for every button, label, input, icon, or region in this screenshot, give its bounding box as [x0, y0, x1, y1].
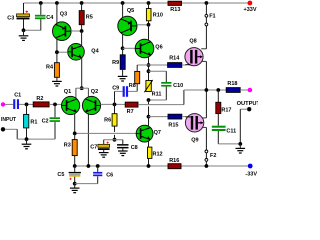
node output / R17	[216, 88, 220, 92]
node C3-C4 ground junction	[22, 28, 26, 32]
wire Q2 emitter down to bus	[87, 113, 89, 166]
transistor Q2 (NPN mirrored)	[82, 89, 100, 115]
wire +33V top supply rail (right section)	[182, 2, 248, 4]
transistor Q1 (NPN)	[62, 89, 80, 115]
wire +33V top supply rail (left section)	[24, 2, 169, 4]
node Q4 base / R4	[55, 50, 59, 54]
wire rail to Q5 emitter	[122, 3, 124, 18]
wire R18 to output terminal	[240, 89, 248, 91]
terminal -33V (blue)	[248, 164, 253, 169]
svg-text:C5: C5	[57, 172, 64, 178]
resistor R17	[216, 90, 232, 126]
resistor R8	[129, 71, 140, 91]
wire node to R8 top	[137, 65, 148, 71]
capacitor C6	[93, 166, 113, 178]
resistor R12	[148, 147, 163, 166]
wire Q9 source step to F2	[202, 127, 207, 149]
transistor Q4 (NPN)	[68, 44, 100, 61]
svg-text:C8: C8	[131, 145, 138, 151]
node C1/R1/R2	[25, 103, 29, 107]
terminal input ground (black)	[1, 127, 5, 131]
svg-text:R6: R6	[104, 118, 111, 124]
svg-text:Q4: Q4	[91, 48, 99, 54]
svg-text:Q5: Q5	[127, 8, 134, 14]
capacitor C4	[35, 3, 54, 30]
wire down to R15 node (gap at feedback crossing)	[148, 100, 150, 117]
wire C9 left to Q2 base node	[115, 91, 123, 104]
node bus C6	[96, 164, 100, 168]
svg-text:F2: F2	[210, 153, 216, 159]
label -33V	[245, 171, 257, 177]
svg-text:R9: R9	[112, 60, 119, 66]
ground below R4	[52, 81, 62, 86]
wire input to C1	[5, 103, 13, 105]
node Q6 emitter / R8 / R14	[147, 63, 151, 67]
svg-text:Q8: Q8	[189, 38, 196, 44]
capacitor C11	[212, 126, 236, 135]
wire R14 to Q8 gate	[182, 64, 186, 66]
wire C10 bottom to R11 bottom node	[149, 87, 167, 100]
capacitor C3 electrolytic	[7, 3, 29, 30]
terminal INPUT (magenta)	[1, 102, 5, 106]
wire Q4 collector up	[81, 31, 83, 46]
node R11 bottom / C10	[147, 98, 151, 102]
svg-text:Q9: Q9	[191, 137, 198, 143]
resistor R7 (feedback)	[125, 102, 138, 115]
svg-text:R10: R10	[153, 12, 163, 18]
node rail junction Q3 emitter	[55, 1, 59, 5]
svg-text:INPUT: INPUT	[1, 117, 16, 123]
node R6 bottom / C7 / C8	[113, 138, 117, 142]
svg-text:R12: R12	[153, 152, 163, 158]
svg-text:C1: C1	[14, 92, 21, 98]
svg-text:R15: R15	[168, 122, 178, 128]
capacitor C5 electrolytic	[57, 166, 81, 184]
resistor R10	[146, 3, 162, 25]
svg-text:R11: R11	[152, 92, 162, 98]
ground below C8	[118, 148, 128, 155]
resistor R5	[79, 3, 93, 31]
node C11/return ground	[238, 142, 242, 146]
svg-text:R4: R4	[46, 65, 54, 71]
node output / Q8 source / Q9 drain	[205, 88, 209, 92]
wire Q8 drain step to F1	[201, 26, 206, 49]
svg-text:R5: R5	[86, 14, 93, 20]
capacitor C2	[42, 104, 60, 139]
node rail junction Q5 emitter	[121, 1, 125, 5]
wire C3/C4 to ground	[24, 29, 41, 31]
label OUTPUT	[237, 101, 261, 107]
transistor Q5 (PNP)	[118, 8, 137, 36]
node bus F2	[205, 164, 209, 168]
node R15 / Q7 collector	[147, 115, 151, 119]
svg-text:R3: R3	[64, 143, 71, 149]
svg-text:F1: F1	[209, 14, 215, 20]
resistor R2	[33, 96, 49, 107]
svg-text:R13: R13	[170, 7, 180, 13]
node rail junction F1	[205, 1, 209, 5]
capacitor C10	[161, 82, 183, 89]
svg-text:OUTPUT: OUTPUT	[237, 101, 258, 107]
wire rail to Q3 emitter	[56, 3, 58, 24]
wire Q6 emitter down through nodes to R11	[148, 57, 150, 81]
resistor R6	[104, 104, 117, 139]
wire Q5 collector down	[122, 34, 124, 48]
node Q5 collector / Q6 base / R9	[121, 46, 125, 50]
resistor R18	[226, 81, 240, 92]
wire Q9 drain step to output	[202, 90, 207, 118]
svg-text:C7: C7	[90, 144, 97, 150]
ground below C11	[236, 144, 246, 153]
svg-text:R16: R16	[169, 158, 179, 164]
transistor Q7 (NPN)	[136, 125, 161, 142]
wire feedback R7 to output	[138, 90, 184, 105]
terminal OUTPUT (magenta)	[248, 88, 253, 93]
transistor Q6 (NPN)	[135, 39, 162, 58]
wire C11 bottom to ground node	[218, 131, 240, 144]
wire Q6 collector up	[148, 25, 150, 40]
node bus R3/C5	[73, 164, 77, 168]
ground below C7	[99, 150, 109, 157]
svg-text:R2: R2	[36, 96, 43, 102]
wire -33V bottom bus (left section)	[75, 165, 168, 167]
node Q2 base/R6/R7/C9	[113, 103, 117, 107]
node rail junction C4	[39, 1, 43, 5]
terminal speaker return (black)	[247, 107, 251, 111]
resistor R13 (in series on rail)	[168, 1, 182, 13]
node R5/Q3 base/Q4 collector	[80, 29, 84, 33]
resistor R9	[112, 48, 125, 76]
wire R8 bottom to C9	[128, 90, 137, 92]
svg-text:-33V: -33V	[245, 171, 257, 177]
resistor R1	[24, 104, 38, 139]
resistor R14	[149, 56, 182, 68]
wire Q3 collector down	[56, 39, 58, 52]
node R10/Q5 base/Q6 collector	[147, 23, 151, 27]
wire Q5 base to R10	[137, 24, 149, 26]
node ground junction R1/C2	[25, 137, 29, 141]
wire C1 to R1/R2 node	[19, 103, 33, 105]
ground below R9	[118, 76, 128, 81]
wire Q2 base to feedback node	[101, 103, 126, 105]
svg-text:R17: R17	[221, 108, 231, 114]
ground below R1	[22, 139, 32, 149]
terminal +33V (red)	[248, 1, 253, 6]
resistor R4	[46, 52, 59, 81]
wire Q7 emitter to R12	[148, 141, 150, 148]
svg-text:R1: R1	[30, 119, 37, 125]
capacitor C9	[112, 86, 128, 97]
svg-text:Q7: Q7	[154, 130, 161, 136]
svg-text:C2: C2	[42, 118, 49, 124]
node bus R12	[147, 164, 151, 168]
wire Q4 emitter down	[81, 58, 83, 88]
capacitor C1	[13, 92, 21, 109]
svg-text:C3: C3	[7, 15, 14, 21]
ground below C3	[19, 30, 29, 40]
svg-text:C10: C10	[173, 83, 183, 89]
wire return to ground node	[240, 109, 247, 144]
svg-text:R18: R18	[227, 81, 237, 87]
wire Q8 source step to output	[201, 61, 206, 90]
fuse F2	[205, 150, 216, 166]
svg-text:C11: C11	[226, 128, 236, 134]
wire Q6 base	[123, 47, 136, 49]
svg-text:Q6: Q6	[155, 45, 162, 51]
node bus Q2 emitter	[87, 164, 91, 168]
wire Q1 emitter down	[74, 114, 76, 134]
fuse F1	[205, 3, 216, 26]
svg-text:R8: R8	[129, 83, 136, 89]
resistor R15	[168, 114, 182, 128]
wire output node	[184, 89, 226, 91]
wire R15 to Q9 gate	[182, 116, 186, 118]
capacitor C8	[117, 144, 138, 151]
wire to C7 and C8	[104, 140, 123, 145]
svg-text:R7: R7	[127, 109, 134, 115]
svg-text:Q2: Q2	[91, 89, 98, 95]
svg-text:C4: C4	[46, 15, 54, 21]
svg-text:C9: C9	[112, 86, 119, 92]
svg-text:R14: R14	[169, 56, 180, 62]
node Q6 emitter / C10	[147, 69, 151, 73]
svg-text:Q1: Q1	[64, 89, 71, 95]
label INPUT	[1, 117, 16, 123]
wire Q4 base	[57, 51, 68, 53]
wire split to Q1/Q2 collectors	[76, 88, 89, 98]
wire -33V bottom bus (right section)	[181, 165, 248, 167]
trimmer R11	[144, 80, 161, 98]
wire node to C10 top	[149, 71, 167, 82]
ground below C5	[70, 184, 80, 193]
svg-text:+33V: +33V	[244, 7, 257, 13]
svg-text:C6: C6	[106, 172, 113, 178]
label +33V	[244, 7, 257, 13]
wire R2 to Q1 base node	[49, 103, 62, 105]
node C5/C6 ground	[73, 182, 77, 186]
wire input ground run	[5, 129, 55, 139]
wire Q3 base to R5 node	[71, 30, 82, 32]
wire C6 bottom to C5 ground	[75, 176, 98, 183]
resistor R16 (in series on bus)	[168, 158, 181, 169]
node rail junction R5	[80, 1, 84, 5]
capacitor C7 electrolytic	[90, 142, 109, 151]
node rail junction R10	[147, 1, 151, 5]
transistor Q3 (PNP)	[53, 12, 72, 41]
node R2/C2/Q1 base	[53, 103, 57, 107]
svg-text:Q3: Q3	[60, 12, 67, 18]
wire Q1 emitter / Q7 base run	[75, 132, 137, 134]
mosfet Q9	[185, 114, 203, 144]
node Q4 emitter split	[80, 86, 84, 90]
wire Q7 collector up	[148, 117, 150, 127]
wire node to R15	[149, 116, 169, 118]
node R3 top	[73, 132, 77, 136]
resistor R3	[64, 133, 77, 166]
mosfet Q8	[185, 38, 203, 66]
